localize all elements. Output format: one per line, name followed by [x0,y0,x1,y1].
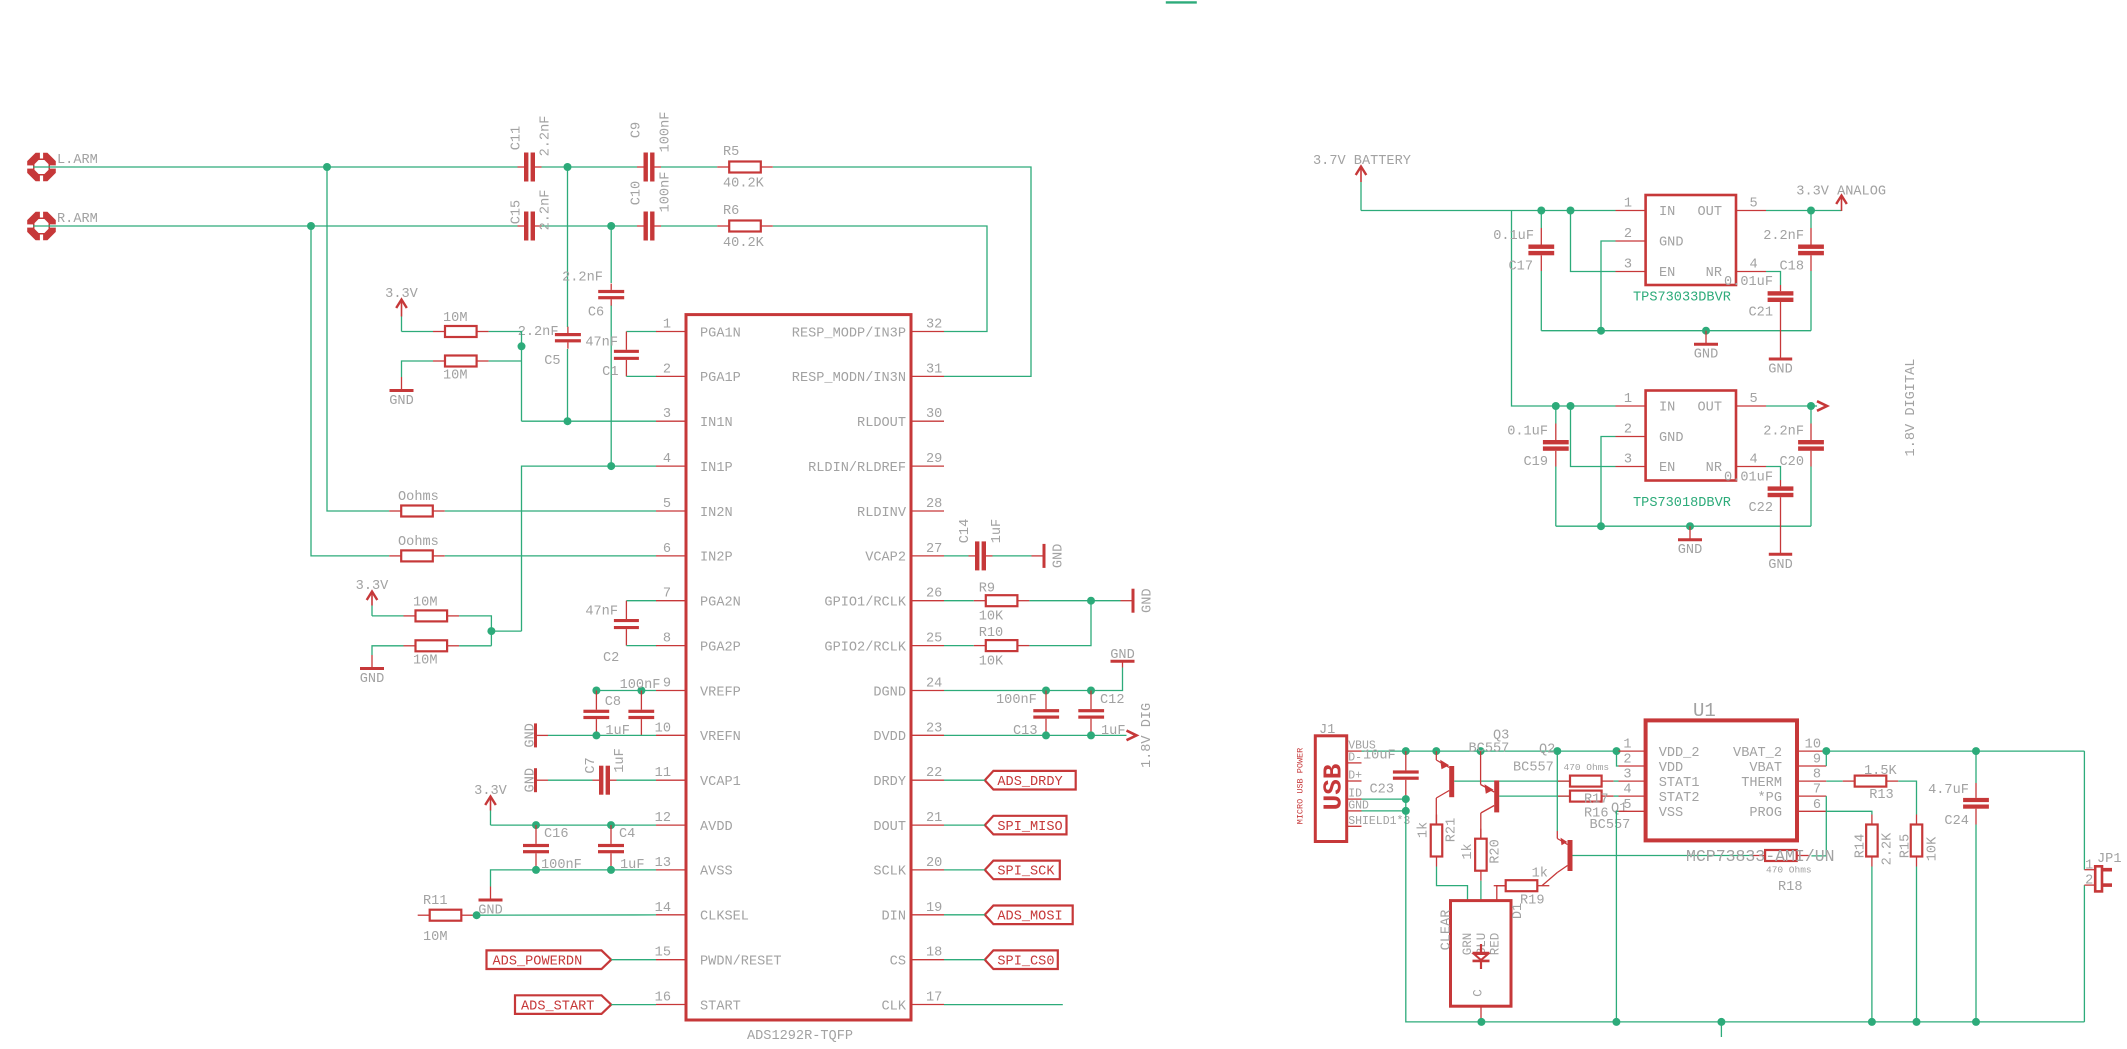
svg-text:VDD: VDD [1659,761,1683,776]
svg-text:14: 14 [655,901,671,916]
svg-text:ADS_DRDY: ADS_DRDY [997,775,1062,790]
wire R9 to GND [1029,600,1120,602]
svg-text:GND: GND [1678,543,1702,558]
junction Q3 emitter tap [1432,747,1440,755]
wire R6 to pin32 [773,226,987,332]
wire 0ohm to pin6 [445,555,656,557]
svg-text:1.5K: 1.5K [1864,764,1897,779]
junction Q2 emitter tap [1477,747,1485,755]
wire Q2 base to R16 [1499,795,1570,797]
svg-text:6: 6 [1813,798,1821,813]
svg-text:1uF: 1uF [613,748,628,772]
capacitor C21 0.01uF [1724,275,1793,359]
svg-text:R15: R15 [1898,834,1913,858]
svg-text:GND: GND [1694,348,1718,363]
svg-text:NR: NR [1706,461,1722,476]
wire bottom bias resistor to node [489,360,522,362]
wire ID to C23 [1362,798,1406,800]
junction ID node [1402,795,1410,803]
svg-text:DGND: DGND [873,685,906,700]
wire VREFN pin10 [548,734,656,736]
svg-text:2: 2 [2085,873,2093,888]
svg-text:BC557: BC557 [1513,761,1554,776]
junction C8 top [592,687,600,695]
svg-text:10M: 10M [423,930,447,945]
svg-text:3: 3 [1623,768,1631,783]
svg-text:PGA2P: PGA2P [700,640,741,655]
svg-text:4: 4 [1750,453,1758,468]
junction Q1 emitter tap [1553,747,1561,755]
svg-text:CLEAR: CLEAR [1439,910,1454,951]
capacitor (VREF 100nF) [620,678,661,736]
supply 3.3V (top bias) [385,287,418,332]
connector pad L.ARM [25,151,98,184]
capacitor C1 [585,332,656,381]
pin 6 IN2P [656,542,733,566]
wire 3.3V to resistor [402,331,434,333]
svg-text:2.2nF: 2.2nF [538,116,553,157]
svg-text:USB: USB [1319,763,1349,810]
svg-text:C10: C10 [630,181,645,205]
svg-text:GND: GND [523,723,538,747]
pin 5 OUT (reg2) [1698,392,1766,416]
pin 26 GPIO1/RCLK [824,587,944,611]
wire THERM to R13 [1826,780,1842,782]
svg-text:JP1: JP1 [2097,852,2121,867]
pin 14 CLKSEL [655,901,749,925]
pin 17 CLK [882,991,944,1015]
wire VBAT_2 net [1826,750,2084,752]
svg-text:IN2P: IN2P [700,551,733,566]
junction GND pin rail (reg1) [1597,327,1605,335]
svg-text:2.2nF: 2.2nF [518,325,559,340]
wire CLK pin17 [944,1004,1063,1006]
connector J1 USB body [1295,723,1348,842]
pin 22 DRDY [873,766,944,790]
junction C4 top [607,821,615,829]
pin SHIELD1*3 (USB) [1347,815,1411,828]
pin 1 VDD_2 (U1) [1619,738,1700,761]
wire lower bias node to pin4 wire [491,630,521,632]
svg-text:2: 2 [1624,227,1632,242]
svg-text:100nF: 100nF [620,678,661,693]
capacitor C15 [510,190,554,241]
svg-text:C7: C7 [584,757,599,773]
svg-text:1: 1 [2085,859,2093,874]
resistor 0ohms (IN2N) [389,490,445,517]
svg-text:THERM: THERM [1741,776,1782,791]
svg-text:10: 10 [1805,738,1821,753]
svg-text:GND: GND [1659,236,1683,251]
pin 2 VDD (U1) [1619,753,1684,776]
svg-text:C1: C1 [602,365,618,380]
wire battery branch to regulator 2 [1512,211,1616,407]
svg-text:RED: RED [1488,933,1502,956]
capacitor C7 [584,748,628,794]
svg-text:OUT: OUT [1698,205,1722,220]
svg-text:1.8V DIG: 1.8V DIG [1140,703,1155,768]
capacitor C6 [562,271,624,321]
wire VSS down to rail [1616,811,1618,1022]
svg-text:470 Ohms: 470 Ohms [1766,865,1812,876]
junction C6 tap [607,222,615,230]
wire DOUT to flag [944,824,985,826]
svg-text:40.2K: 40.2K [723,236,765,251]
pin 1 IN (reg1) [1616,197,1676,221]
junction rail stub [1717,1018,1725,1026]
svg-text:19: 19 [926,901,942,916]
pin 1 PGA1N [656,318,741,342]
svg-text:5: 5 [1750,197,1758,212]
wire C11 to C9 [542,166,638,168]
wire IN1P pin4 [522,466,657,631]
pin 20 SCLK [873,856,944,880]
capacitor C18 2.2nF [1763,211,1824,331]
IC U1 MCP73833-AMI/UN body [1646,700,1797,840]
junction C18 top [1807,207,1815,215]
svg-text:10M: 10M [413,596,437,611]
svg-text:10K: 10K [979,610,1004,625]
svg-text:R11: R11 [423,894,447,909]
svg-text:2.2K: 2.2K [1880,832,1895,865]
junction VSS on rail [1612,1018,1620,1026]
svg-text:MCP73833-AMI/UN: MCP73833-AMI/UN [1686,847,1835,866]
junction C5 tap [564,163,572,171]
svg-text:ADS_MOSI: ADS_MOSI [997,910,1062,925]
svg-text:7: 7 [663,587,671,602]
svg-text:0.1uF: 0.1uF [1507,425,1548,440]
svg-text:C20: C20 [1780,455,1804,470]
transistor Q3 BC557 [1436,729,1509,826]
pin 2 GND (reg1) [1616,227,1684,251]
pin 4 NR (reg1) [1706,258,1766,282]
resistor R16 470 Ohms [1558,791,1614,822]
wire R20 to LED BLU [1480,881,1482,901]
svg-text:23: 23 [926,721,942,736]
net flag ADS_POWERDN [487,950,612,969]
svg-text:MICRO USB POWER: MICRO USB POWER [1295,748,1305,825]
svg-text:R20: R20 [1488,839,1503,863]
pin 15 PWDN/RESET [655,946,782,970]
svg-text:28: 28 [926,497,942,512]
resistor R15 10K [1898,815,1940,867]
ground GND (AVSS) [478,887,502,919]
pin 3 IN1N [656,407,733,431]
pin 5 VSS (U1) [1619,798,1684,821]
svg-text:27: 27 [926,542,942,557]
wire bias node vertical [489,332,522,422]
svg-text:RLDOUT: RLDOUT [857,416,906,431]
svg-text:10M: 10M [443,369,467,384]
pin 6 PROG (U1) [1749,798,1826,821]
svg-text:U1: U1 [1693,700,1716,722]
wire C15 to C10 [542,225,638,227]
wire PG down to R18 [1811,796,1826,856]
svg-text:RLDIN/RLDREF: RLDIN/RLDREF [808,461,906,476]
svg-text:IN: IN [1659,401,1675,416]
svg-text:C22: C22 [1749,501,1773,516]
svg-text:TPS73018DBVR: TPS73018DBVR [1633,496,1731,511]
resistor R20 1k [1461,829,1504,881]
wire C5 vertical [567,167,569,421]
svg-text:GND: GND [1768,558,1792,573]
svg-text:1: 1 [1623,738,1631,753]
junction C17 top [1537,207,1545,215]
pin VBUS (USB) [1347,740,1376,753]
capacitor C5 [518,325,581,369]
supply 3.7V BATTERY [1313,154,1411,211]
svg-text:4: 4 [1623,783,1631,798]
wire R16 to STAT2 pin4 [1614,795,1619,797]
junction lower bias node [487,627,495,635]
svg-text:ADS_POWERDN: ADS_POWERDN [493,955,583,970]
svg-text:5: 5 [1750,392,1758,407]
net flag SPI_MISO [985,816,1067,835]
svg-text:DRDY: DRDY [873,775,906,790]
wire R17 to STAT1 pin3 [1614,780,1619,782]
junction rail GND symbol (reg1) [1702,327,1710,335]
svg-text:C6: C6 [588,305,604,320]
junction C12 top [1087,687,1095,695]
junction C4 bottom [607,866,615,874]
svg-text:2.2nF: 2.2nF [538,190,553,231]
svg-text:24: 24 [926,677,942,692]
pin GND (USB) [1347,799,1369,812]
LED D1 package [1439,901,1526,1007]
ground GND (lower bias) [360,655,384,687]
pin 13 AVSS [655,856,733,880]
net flag ADS_START [515,995,611,1014]
svg-text:100nF: 100nF [996,693,1037,708]
capacitor C23 10uF [1363,749,1419,800]
wire R21 to LED GRN [1437,867,1468,901]
svg-text:11: 11 [655,766,671,781]
svg-text:8: 8 [1813,768,1821,783]
pin 3 EN (reg2) [1616,453,1676,477]
svg-text:20: 20 [926,856,942,871]
svg-text:40.2K: 40.2K [723,177,765,192]
resistor R5 40.2K [717,145,773,192]
wire R15 to rail [1916,867,1918,1022]
wire GND to C7 [548,779,593,781]
junction C13 bottom [1042,731,1050,739]
wire R5 to pin31 [773,167,1031,376]
svg-text:EN: EN [1659,266,1675,281]
pin 8 PGA2P [656,632,741,656]
pin ID (USB) [1347,788,1362,801]
svg-text:10: 10 [655,721,671,736]
svg-text:D-: D- [1348,751,1362,764]
svg-text:ADS_START: ADS_START [521,999,594,1014]
svg-text:15: 15 [655,946,671,961]
svg-text:C23: C23 [1370,783,1394,798]
pin 31 RESP_MODN/IN3N [792,362,944,386]
svg-text:C12: C12 [1100,693,1124,708]
resistor R9 10K [974,582,1030,625]
wire GND to resistor (upper bias bottom) [402,361,434,377]
capacitor C22 0.01uF [1724,471,1793,554]
svg-text:VREFN: VREFN [700,730,741,745]
svg-text:2: 2 [1624,423,1632,438]
svg-text:SHIELD1*3: SHIELD1*3 [1348,815,1410,828]
wire R14 to rail [1871,867,1873,1022]
svg-text:C: C [1471,989,1485,997]
svg-text:2: 2 [663,362,671,377]
pin 9 VBAT (U1) [1749,753,1826,776]
svg-text:VCAP2: VCAP2 [865,551,906,566]
svg-text:2.2nF: 2.2nF [562,271,603,286]
svg-text:SCLK: SCLK [873,865,906,880]
svg-text:VSS: VSS [1659,806,1683,821]
junction C5 to IN1N [564,417,572,425]
svg-text:0.01uF: 0.01uF [1724,275,1773,290]
ground GND (DGND) [1110,648,1134,668]
svg-text:C13: C13 [1013,724,1037,739]
svg-text:22: 22 [926,766,942,781]
svg-text:GPIO1/RCLK: GPIO1/RCLK [824,596,906,611]
svg-text:10M: 10M [413,653,437,668]
pin 4 STAT2 (U1) [1619,783,1700,806]
svg-text:VBAT: VBAT [1749,761,1782,776]
svg-text:AVSS: AVSS [700,865,733,880]
wire OUT (reg2) [1766,405,1817,407]
junction rail GND symbol (reg2) [1686,522,1694,530]
wire ADS_START to pin16 [611,1004,656,1006]
svg-text:10uF: 10uF [1363,749,1396,764]
ground GND (C22) [1768,554,1792,573]
svg-text:0.01uF: 0.01uF [1724,471,1773,486]
pin 8 THERM (U1) [1741,768,1826,791]
wire CLKSEL pin14 [473,914,656,916]
wire SCLK to flag [944,869,985,871]
junction C24 top [1972,747,1980,755]
svg-text:SPI_SCK: SPI_SCK [997,865,1055,880]
wire lower bottom resistor to node [459,645,491,647]
svg-text:PWDN/RESET: PWDN/RESET [700,955,782,970]
svg-text:RESP_MODP/IN3P: RESP_MODP/IN3P [792,326,906,341]
svg-text:3: 3 [663,407,671,422]
supply arrow 1.8V DIG [1127,703,1155,768]
svg-text:C14: C14 [958,519,973,543]
svg-text:CLK: CLK [882,999,907,1014]
junction VBAT jog [1822,747,1830,755]
svg-text:2: 2 [1623,753,1631,768]
wire OUT (reg1) [1766,210,1842,212]
svg-text:C8: C8 [605,695,621,710]
resistor 10M (upper bias top) [433,311,489,337]
wire R.ARM to C15 [33,225,518,227]
svg-text:IN1P: IN1P [700,461,733,476]
capacitor C11 [510,116,554,182]
svg-text:1uF: 1uF [1101,724,1125,739]
svg-text:C2: C2 [603,651,619,666]
ground GND (VREFN) [523,723,548,747]
pin 30 RLDOUT [857,407,944,431]
resistor R18 470 Ohms [1753,850,1812,895]
svg-text:GND: GND [1140,588,1155,612]
capacitor C24 4.7uF [1928,751,1989,1022]
wire NR to C22 [1766,467,1781,481]
wire R10 up to R9 node [1029,601,1091,646]
junction C19 top [1552,402,1560,410]
svg-text:AVDD: AVDD [700,820,733,835]
pin 5 OUT (reg1) [1698,197,1766,221]
svg-text:PGA2N: PGA2N [700,596,741,611]
wire EN (reg2) [1571,406,1616,467]
svg-text:GND: GND [1659,431,1683,446]
pin 24 DGND [873,677,944,701]
wire LED common C to rail [1480,1006,1482,1022]
svg-text:BC557: BC557 [1590,818,1631,833]
pin 21 DOUT [873,811,944,835]
svg-text:1k: 1k [1416,822,1431,838]
pin 29 RLDIN/RLDREF [808,452,944,476]
svg-text:R6: R6 [723,204,739,219]
svg-text:R14: R14 [1853,834,1868,858]
wire EN (reg1) [1571,211,1616,272]
pin D+ (USB) [1347,770,1362,783]
svg-text:C4: C4 [619,827,635,842]
svg-text:GND: GND [1051,544,1066,568]
wire R13 to R15 [1898,781,1916,814]
pin 2 PGA1P [656,362,741,386]
pin 5 IN2N [656,497,733,521]
svg-text:R10: R10 [979,626,1003,641]
wire battery to regulator 1 [1361,210,1616,212]
resistor R13 1.5K [1843,764,1899,803]
svg-text:C17: C17 [1509,260,1533,275]
svg-text:NR: NR [1706,266,1722,281]
svg-text:100nF: 100nF [658,112,673,153]
LED D1 symbol [1473,944,1490,969]
svg-text:1: 1 [1624,392,1632,407]
junction LED C on rail [1477,1018,1485,1026]
pin 1 IN (reg2) [1616,392,1676,416]
wire (clipped net at top edge) [1166,1,1197,3]
wire ground rail (reg2) [1556,525,1811,527]
svg-text:VCAP1: VCAP1 [700,775,741,790]
svg-text:SPI_MISO: SPI_MISO [997,820,1062,835]
svg-text:R17: R17 [1584,793,1608,808]
supply 3.3V (lower bias) [356,579,389,616]
pin 7 *PG (U1) [1758,783,1827,806]
wire CS to flag [944,959,985,961]
connector pad R.ARM [25,210,98,243]
svg-text:R21: R21 [1444,818,1459,842]
svg-text:1k: 1k [1461,843,1476,859]
pin 4 IN1P [656,452,733,476]
net flag ADS_MOSI [985,906,1073,925]
wire C6 vertical [610,226,612,466]
svg-text:Oohms: Oohms [398,535,439,550]
wire DGND pin24 [944,668,1123,691]
resistor 10M (lower bias bottom) [404,640,460,668]
svg-text:GND: GND [523,768,538,792]
svg-text:10K: 10K [1925,836,1940,861]
resistor R17 470 Ohms [1558,762,1614,787]
pin 16 START [655,991,741,1015]
svg-text:IN1N: IN1N [700,416,733,431]
svg-text:12: 12 [655,811,671,826]
wire C10 to R6 [661,225,717,227]
wire VBAT jog [1825,751,1827,766]
svg-text:D1: D1 [1511,903,1526,919]
wire pin26 to R9 [944,600,974,602]
svg-text:*PG: *PG [1758,791,1782,806]
capacitor C20 2.2nF [1763,406,1824,526]
wire JP1 pin2 to ground rail [2083,885,2085,1022]
svg-text:25: 25 [926,632,942,647]
